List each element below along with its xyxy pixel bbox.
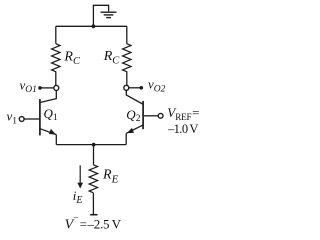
wire RE top lead [93, 145, 95, 165]
wire bottom rail [56, 144, 126, 146]
node emitter junction [92, 143, 96, 147]
resistor RE [89, 165, 97, 193]
wire Q1 base [24, 118, 39, 120]
transistor Q2 bar [142, 101, 144, 129]
resistor RC2 [123, 44, 131, 72]
svg-text:–1.0 V: –1.0 V [167, 122, 198, 136]
node VREF circle [158, 113, 163, 118]
transistor Q1 emitter [40, 129, 56, 135]
wire ground riser [93, 5, 108, 26]
wire vO1 stub [41, 87, 54, 89]
node vO1 dot [38, 86, 42, 90]
svg-text:iE: iE [73, 188, 83, 206]
wire right top drop [126, 26, 128, 43]
arrow iE [79, 165, 81, 183]
resistor RC1 [52, 44, 60, 72]
wire Q2 collector [126, 90, 142, 104]
wire RC1 to vO1 node [55, 71, 57, 85]
svg-text:vO2: vO2 [148, 77, 166, 95]
svg-text:RC: RC [63, 50, 81, 67]
wire Q2 base [144, 115, 159, 117]
svg-text:Q2: Q2 [126, 107, 140, 124]
node top junction [92, 24, 96, 28]
wire top rail [56, 25, 127, 27]
transistor Q1 bar [39, 99, 41, 135]
terminal V- bar [90, 214, 97, 216]
wire Q1 collector [40, 90, 56, 102]
svg-text:= –2.5 V: = –2.5 V [80, 216, 122, 231]
wire RC2 to vO2 node [126, 71, 128, 85]
svg-text:REF: REF [175, 112, 191, 122]
transistor Q2 emitter [126, 125, 142, 133]
svg-text:v1: v1 [7, 109, 18, 127]
node v1 circle [19, 117, 24, 122]
svg-text:RC: RC [103, 49, 121, 66]
svg-text:RE: RE [102, 168, 119, 186]
svg-text:=: = [192, 105, 199, 120]
wire RE bottom lead [92, 193, 94, 214]
svg-text:−: − [73, 214, 78, 224]
svg-text:Q1: Q1 [44, 106, 58, 123]
node vO2 circle [124, 85, 129, 90]
wire Q2 emitter drop [125, 133, 127, 144]
node vO1 circle [54, 85, 59, 90]
ground [101, 12, 117, 17]
node vO2 dot [140, 86, 144, 90]
wire vO2 stub [129, 87, 141, 89]
wire left top drop [55, 26, 57, 43]
svg-text:vO1: vO1 [20, 77, 37, 95]
wire Q1 emitter drop [55, 135, 57, 145]
